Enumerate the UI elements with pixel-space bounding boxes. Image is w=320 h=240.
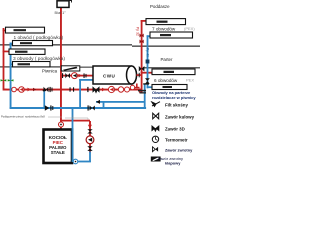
svg-text:Termometr: Termometr <box>165 137 188 142</box>
svg-text:PEX: PEX <box>186 78 194 83</box>
svg-text:Filt skośny: Filt skośny <box>165 102 188 107</box>
svg-text:Zawór 3D: Zawór 3D <box>165 126 185 131</box>
svg-text:6 obwodów: 6 obwodów <box>154 78 178 83</box>
svg-text:Poddasze: Poddasze <box>150 4 170 9</box>
svg-text:Zawór kulowy: Zawór kulowy <box>165 114 195 119</box>
svg-text:Parter: Parter <box>161 57 173 62</box>
svg-text:rozdzielacze w piwnicy: rozdzielacze w piwnicy <box>152 95 196 100</box>
svg-text:Pp 32: Pp 32 <box>136 27 140 36</box>
svg-text:(PEX): (PEX) <box>184 26 195 31</box>
svg-text:Biał 1": Biał 1" <box>55 10 67 15</box>
svg-text:7 obwodów: 7 obwodów <box>152 26 176 31</box>
svg-text:Pp 40: Pp 40 <box>145 48 149 57</box>
svg-text:Podłączenie pieca i rozdzielac: Podłączenie pieca i rozdzielaczy 8x8 <box>1 114 45 118</box>
svg-text:Piwnica: Piwnica <box>42 69 58 74</box>
svg-text:Zawór zwrotny: Zawór zwrotny <box>165 147 193 152</box>
svg-text:klapowy: klapowy <box>165 161 181 166</box>
svg-text:CWU: CWU <box>103 74 115 79</box>
svg-text:STAŁE: STAŁE <box>51 150 65 155</box>
